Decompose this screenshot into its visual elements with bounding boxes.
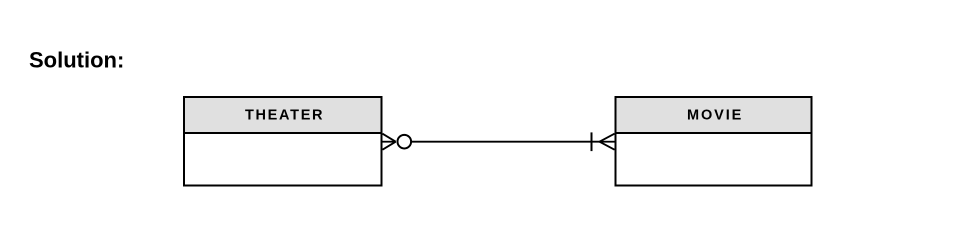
svg-text:Solution:: Solution: [29,48,124,73]
one tick (MOVIE side) [591,132,593,151]
entity MOVIE [616,97,812,186]
zero circle (THEATER side) [398,135,412,149]
crow's foot many (THEATER side) [383,134,396,150]
wire connector [412,141,601,143]
crow's foot many (MOVIE side) [600,134,615,150]
entity THEATER [184,97,382,186]
svg-text:THEATER: THEATER [245,108,324,124]
svg-text:MOVIE: MOVIE [687,108,743,124]
